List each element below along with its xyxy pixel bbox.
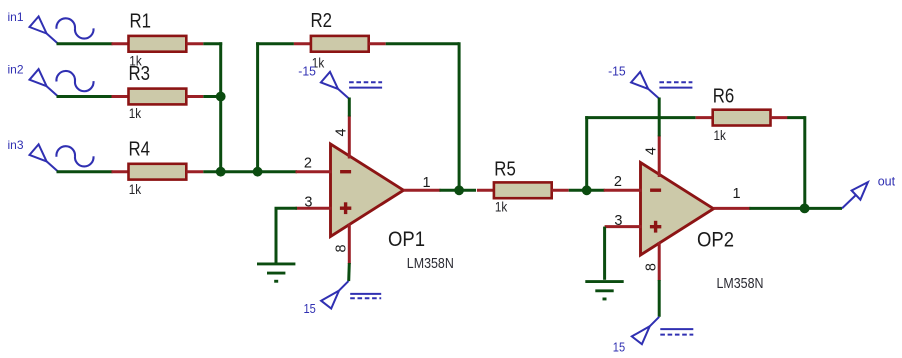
op-amp OP2 pin 3 lead bbox=[605, 225, 642, 228]
svg-text:4: 4 bbox=[643, 147, 659, 155]
wire OP2 ground vertical bbox=[603, 227, 606, 280]
power rail lines at OP1 -15 bbox=[349, 87, 382, 89]
svg-text:in2: in2 bbox=[8, 63, 24, 77]
svg-text:8: 8 bbox=[643, 263, 659, 271]
op-amp OP1 pin 8 lead bbox=[348, 224, 351, 265]
junction OP2 inverting node bbox=[582, 185, 592, 195]
svg-text:4: 4 bbox=[333, 128, 349, 136]
wire R6 right horizontal bbox=[787, 116, 805, 119]
power terminal -15 symbol at OP1 bbox=[338, 89, 349, 99]
op-amp OP1 pin 2 lead bbox=[296, 170, 332, 173]
svg-text:R5: R5 bbox=[494, 158, 516, 180]
resistor R4 body bbox=[129, 164, 187, 180]
resistor R4 left lead bbox=[112, 170, 129, 173]
wire R2 left vertical from summing row bbox=[256, 42, 259, 170]
op-amp OP2 pin 8 lead bbox=[658, 242, 661, 281]
wire R2 right horizontal bbox=[386, 42, 459, 45]
svg-text:1: 1 bbox=[733, 186, 741, 202]
resistor R4 right lead bbox=[186, 170, 203, 173]
svg-text:15: 15 bbox=[613, 340, 625, 355]
wire -15 to OP2 pin 4 bbox=[658, 98, 661, 137]
svg-text:OP2: OP2 bbox=[697, 229, 734, 252]
wire OP2 output to out port bbox=[749, 207, 842, 210]
op-amp OP1 body bbox=[331, 144, 404, 237]
wire in3 to resistor bbox=[57, 170, 113, 173]
svg-text:8: 8 bbox=[333, 244, 349, 252]
svg-text:1k: 1k bbox=[129, 106, 142, 121]
resistor R2 body bbox=[311, 36, 369, 52]
wire R6 right vertical down to output node bbox=[803, 116, 806, 208]
svg-text:1k: 1k bbox=[495, 200, 508, 215]
svg-text:in3: in3 bbox=[8, 138, 24, 152]
power rail lines at OP1 15 bbox=[350, 293, 381, 295]
op-amp OP2 output lead pin 1 bbox=[714, 207, 751, 210]
sine source symbol in3 bbox=[56, 146, 93, 166]
wire R3 output to junction bbox=[203, 95, 220, 98]
wire R6 left horizontal bbox=[585, 116, 696, 119]
resistor R2 left lead bbox=[294, 42, 311, 45]
junction output node (R6 feedback) bbox=[800, 204, 810, 214]
op-amp OP2 inverting input marker bbox=[650, 189, 661, 192]
power rail lines at OP2 15 bbox=[660, 328, 693, 330]
port in1 terminal symbol bbox=[47, 34, 58, 44]
svg-text:1k: 1k bbox=[129, 182, 142, 197]
svg-text:in1: in1 bbox=[8, 10, 24, 24]
op-amp OP2 pin 4 lead bbox=[658, 135, 661, 177]
op-amp OP2 pin 2 lead bbox=[604, 189, 642, 192]
sine source symbol in2 bbox=[56, 71, 93, 91]
wire R2 left horizontal bbox=[256, 42, 294, 45]
resistor R2 right lead bbox=[369, 42, 386, 45]
svg-text:out: out bbox=[878, 174, 896, 188]
junction summing node A bbox=[216, 167, 226, 177]
resistor R1 left lead bbox=[112, 42, 129, 45]
op-amp OP1 inverting input marker bbox=[340, 170, 351, 173]
wire R5 to OP2 pin 2 junction bbox=[569, 189, 605, 192]
svg-text:R3: R3 bbox=[129, 63, 151, 85]
wire OP1 output to R5 bbox=[440, 189, 477, 192]
junction summing node B (R2 feedback) bbox=[253, 167, 263, 177]
svg-text:2: 2 bbox=[304, 156, 312, 172]
wire -15 to OP1 pin 4 bbox=[348, 98, 351, 117]
op-amp OP1 non-inverting input marker bbox=[340, 207, 351, 210]
resistor R5 left lead bbox=[477, 189, 494, 192]
op-amp OP2 body bbox=[641, 163, 714, 256]
wire in1 to resistor bbox=[57, 42, 113, 45]
wire R2 right vertical down to OP1 output bbox=[458, 42, 461, 190]
wire R6 left vertical bbox=[585, 116, 588, 189]
port out terminal symbol bbox=[842, 195, 856, 208]
wire vertical R1/R3 join down to summing row bbox=[219, 42, 222, 171]
wire OP1 ground vertical bbox=[275, 208, 278, 262]
wire OP2 pin 8 to +15 bbox=[658, 280, 661, 317]
ground symbol at OP2 pin 3 bbox=[585, 280, 623, 283]
resistor R3 body bbox=[129, 89, 187, 105]
op-amp OP1 output lead pin 1 bbox=[404, 189, 441, 192]
svg-text:LM358N: LM358N bbox=[717, 275, 764, 292]
svg-text:OP1: OP1 bbox=[388, 228, 425, 251]
op-amp OP1 pin 3 lead bbox=[296, 207, 332, 210]
svg-text:3: 3 bbox=[304, 194, 312, 210]
resistor R5 right lead bbox=[552, 189, 569, 192]
svg-text:R4: R4 bbox=[129, 138, 151, 160]
svg-text:-15: -15 bbox=[608, 64, 626, 79]
junction OP1 output node bbox=[454, 185, 464, 195]
svg-text:15: 15 bbox=[304, 301, 316, 316]
resistor R6 right lead bbox=[771, 116, 788, 119]
svg-text:3: 3 bbox=[614, 213, 622, 229]
svg-text:R1: R1 bbox=[130, 11, 152, 33]
wire R1 output to corner bbox=[203, 42, 222, 45]
resistor R6 left lead bbox=[696, 116, 713, 119]
wire R4 output along summing row to OP1 pin 2 bbox=[203, 170, 297, 173]
resistor R1 body bbox=[129, 36, 187, 52]
power terminal -15 symbol at OP2 bbox=[648, 89, 659, 99]
wire OP1 pin 8 to +15 bbox=[347, 263, 351, 281]
op-amp OP1 pin 4 lead bbox=[348, 116, 351, 159]
power terminal 15 symbol at OP1 bbox=[339, 281, 349, 291]
port in3 terminal symbol bbox=[47, 161, 58, 171]
resistor R5 body bbox=[494, 182, 552, 198]
resistor R1 right lead bbox=[186, 42, 203, 45]
resistor R3 left lead bbox=[112, 95, 129, 98]
port in2 terminal symbol bbox=[47, 86, 58, 96]
sine source symbol in1 bbox=[56, 18, 93, 38]
svg-text:1: 1 bbox=[423, 175, 431, 191]
svg-text:R2: R2 bbox=[311, 10, 333, 32]
power rail lines at OP2 -15 bbox=[659, 87, 692, 89]
power terminal 15 symbol at OP2 bbox=[650, 317, 660, 327]
op-amp OP2 non-inverting input marker bbox=[650, 225, 661, 228]
svg-text:1k: 1k bbox=[714, 128, 727, 143]
wire OP1 pin 3 to ground corner bbox=[275, 207, 298, 210]
resistor R3 right lead bbox=[186, 95, 203, 98]
svg-text:R6: R6 bbox=[713, 85, 735, 107]
svg-text:LM358N: LM358N bbox=[407, 255, 454, 272]
svg-text:2: 2 bbox=[614, 174, 622, 190]
wire in2 to resistor bbox=[57, 95, 113, 98]
svg-text:-15: -15 bbox=[298, 64, 316, 79]
junction R3 joins R1 column bbox=[216, 92, 226, 102]
resistor R6 body bbox=[713, 110, 771, 126]
ground symbol at OP1 pin 3 bbox=[257, 262, 295, 265]
